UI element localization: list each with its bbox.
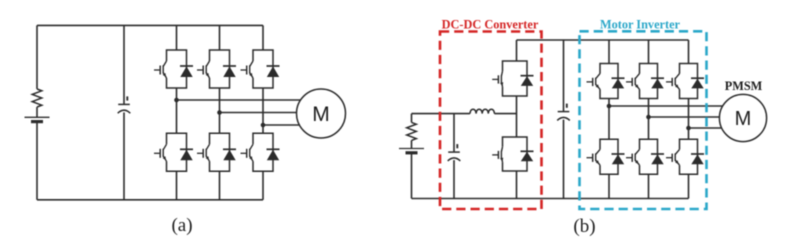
svg-text:(b): (b) <box>573 216 595 237</box>
svg-text:(a): (a) <box>171 215 192 236</box>
svg-text:M: M <box>735 108 752 130</box>
svg-text:Motor Inverter: Motor Inverter <box>600 18 681 32</box>
svg-text:PMSM: PMSM <box>725 79 763 93</box>
svg-text:DC-DC Converter: DC-DC Converter <box>442 17 539 31</box>
svg-text:M: M <box>312 103 330 126</box>
